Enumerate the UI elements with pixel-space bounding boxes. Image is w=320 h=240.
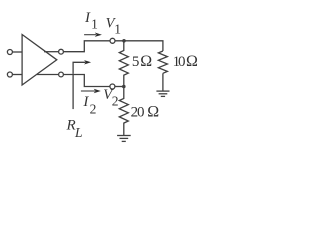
wire input bottom	[13, 74, 22, 76]
svg-text:Ω: Ω	[147, 104, 159, 121]
svg-text:L: L	[74, 125, 83, 140]
svg-text:Ω: Ω	[186, 53, 198, 70]
node V2 circle	[110, 84, 115, 89]
svg-text:5: 5	[132, 54, 140, 70]
resistor 20ohm zigzag	[119, 87, 128, 136]
svg-text:2: 2	[90, 102, 97, 117]
svg-text:1: 1	[114, 22, 121, 37]
current arrow I1	[84, 34, 96, 36]
wire to load RL	[72, 75, 74, 110]
svg-text:I: I	[84, 10, 91, 26]
resistor 10ohm zigzag	[158, 51, 167, 73]
bent current arrow at RL node	[73, 62, 85, 74]
arrowhead bent arrow	[84, 60, 91, 64]
wire 10ohm to ground	[162, 73, 164, 91]
resistor 5ohm zigzag	[119, 41, 128, 87]
terminal output top	[59, 49, 64, 54]
svg-text:I: I	[82, 94, 89, 110]
junction dot V2	[122, 85, 126, 89]
node V1 circle	[110, 38, 115, 43]
svg-text:0: 0	[178, 54, 186, 70]
wire upper output to node V1	[63, 41, 110, 52]
ground (10ohm)	[156, 91, 169, 96]
op-amp triangle	[22, 35, 57, 86]
wire upper output left	[44, 51, 59, 53]
wire lower output to node V2	[63, 75, 110, 87]
current arrow I2	[81, 90, 95, 92]
svg-text:0: 0	[137, 105, 145, 121]
wire V1 row to 10ohm corner	[115, 41, 163, 51]
terminal output bottom	[59, 72, 64, 77]
wire input top	[13, 51, 22, 53]
terminal input bottom	[7, 72, 12, 77]
junction dot V1	[122, 39, 126, 43]
svg-text:Ω: Ω	[140, 53, 152, 70]
svg-text:2: 2	[112, 93, 119, 108]
ground (20ohm)	[117, 136, 131, 142]
wire lower output left	[37, 74, 59, 76]
wire V2 to junction	[115, 86, 125, 88]
terminal input top	[7, 50, 12, 55]
svg-text:1: 1	[91, 17, 98, 32]
